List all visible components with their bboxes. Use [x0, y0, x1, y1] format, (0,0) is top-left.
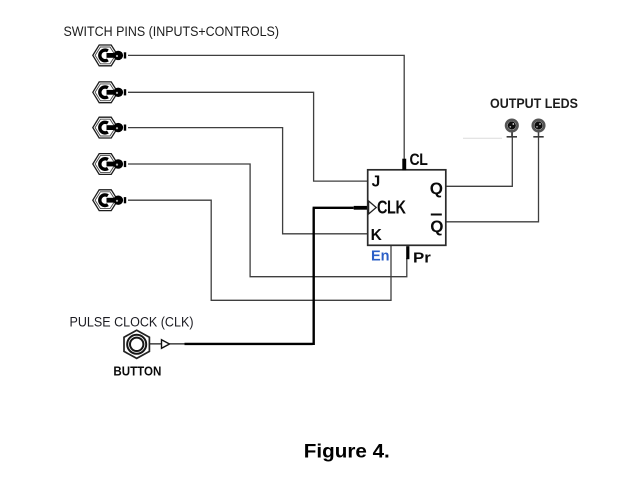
svg-text:K: K	[371, 227, 383, 244]
svg-text:Q: Q	[430, 217, 443, 236]
svg-text:OUTPUT LEDS: OUTPUT LEDS	[490, 95, 578, 111]
svg-text:J: J	[372, 173, 381, 190]
svg-text:CL: CL	[410, 150, 428, 169]
svg-text:Figure 4.: Figure 4.	[304, 440, 390, 462]
svg-text:PULSE CLOCK (CLK): PULSE CLOCK (CLK)	[70, 314, 194, 329]
svg-text:En: En	[371, 249, 390, 265]
svg-text:Q: Q	[430, 179, 443, 198]
svg-text:Pr: Pr	[413, 250, 431, 267]
svg-text:SWITCH PINS (INPUTS+CONTROLS): SWITCH PINS (INPUTS+CONTROLS)	[64, 24, 280, 39]
svg-text:BUTTON: BUTTON	[113, 364, 161, 378]
svg-text:CLK: CLK	[377, 196, 406, 217]
